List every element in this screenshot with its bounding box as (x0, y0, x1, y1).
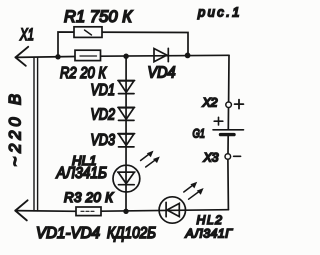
terminal X1 arrow (16, 47, 29, 66)
svg-text:R2 20 К: R2 20 К (60, 65, 107, 82)
wire X3 down to bottom corner (227, 159, 230, 209)
svg-text:X1: X1 (19, 26, 34, 44)
svg-text:~220 В: ~220 В (6, 94, 24, 167)
svg-text:VD2: VD2 (91, 106, 116, 123)
svg-text:X3: X3 (203, 151, 219, 165)
terminal arrow bottom (15, 200, 27, 220)
wire right rail X2 to battery (228, 55, 230, 102)
LED HL2 emission arrows (184, 182, 204, 200)
battery plus mark (214, 117, 223, 125)
svg-text:VD1-VD4: VD1-VD4 (36, 225, 100, 242)
wire top rail R1 branch (58, 32, 188, 57)
minus sign at X3 (234, 155, 241, 157)
node junction at diode chain top (123, 54, 128, 59)
node junction at bottom rail (123, 209, 128, 214)
LED HL1 emission arrows (141, 151, 160, 167)
wire mid rail right segment (101, 54, 230, 57)
svg-text:рис.1: рис.1 (197, 4, 240, 19)
svg-text:R3 20 К: R3 20 К (64, 190, 114, 205)
wire mains double line b (37, 58, 39, 211)
node junction at R1/R2 left (55, 54, 60, 59)
diode VD4 (154, 48, 168, 61)
wire battery to X3 (227, 108, 229, 130)
node junction at VD4 cathode (185, 53, 191, 59)
svg-text:VD1: VD1 (91, 82, 116, 99)
svg-text:HL2: HL2 (197, 213, 223, 227)
svg-text:VD4: VD4 (148, 65, 176, 82)
resistor R1 (74, 27, 102, 38)
wire battery bottom (227, 135, 229, 154)
svg-text:КД102Б: КД102Б (107, 225, 156, 242)
resistor R2 (75, 50, 101, 60)
diode VD1 (118, 81, 135, 94)
svg-text:АЛ341Г: АЛ341Г (185, 227, 234, 241)
plus sign at X2 (235, 100, 244, 109)
wire mid rail left segment (16, 56, 76, 59)
wire mains double line a (33, 58, 35, 211)
wire bottom rail right (101, 210, 228, 212)
diode VD3 (118, 134, 135, 147)
svg-text:G1: G1 (193, 126, 206, 140)
wire diode chain vertical (125, 56, 127, 211)
svg-text:X2: X2 (202, 95, 218, 109)
svg-text:VD3: VD3 (91, 132, 116, 149)
diode VD2 (118, 107, 135, 120)
svg-text:R1 750 К: R1 750 К (64, 8, 133, 26)
battery G1 (213, 130, 244, 135)
terminal X2 circle (226, 102, 232, 108)
wire bottom rail left (15, 210, 76, 213)
LED HL2 (159, 197, 185, 223)
svg-text:АЛ341Б: АЛ341Б (56, 165, 107, 182)
LED HL1 (113, 165, 140, 192)
terminal X3 circle (225, 154, 231, 160)
resistor R3 (76, 207, 101, 216)
